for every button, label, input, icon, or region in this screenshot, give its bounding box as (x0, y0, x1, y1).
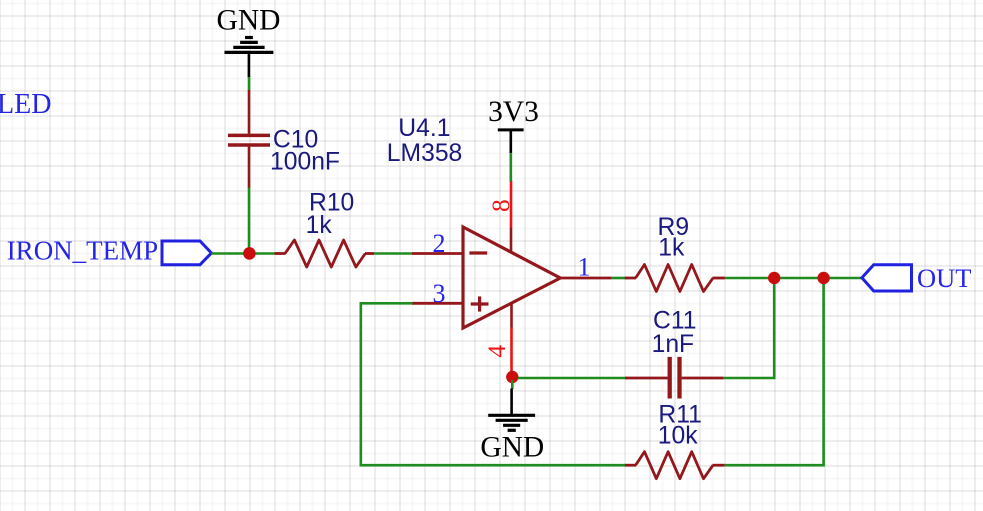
svg-text:U4.1: U4.1 (398, 115, 450, 142)
svg-text:1k: 1k (658, 234, 685, 261)
svg-text:1: 1 (578, 253, 591, 282)
wire (518, 377, 626, 380)
resistor R10 (275, 240, 375, 267)
resistor R9 (625, 265, 725, 292)
power symbol GND (top) (225, 38, 274, 78)
junction (243, 247, 256, 260)
svg-text:1nF: 1nF (652, 331, 695, 358)
wire (511, 380, 514, 389)
wire (724, 284, 775, 378)
wire (248, 188, 251, 254)
op-amp U4.1 pin 2 lead (412, 252, 463, 255)
capacitor C11 (625, 357, 724, 399)
svg-text:2: 2 (433, 229, 446, 258)
resistor R11 (625, 452, 725, 479)
svg-text:GND: GND (217, 5, 281, 37)
svg-text:LM358: LM358 (387, 140, 463, 167)
wire (374, 252, 412, 255)
svg-text:8: 8 (486, 199, 515, 212)
plus sign (471, 296, 489, 311)
svg-text:3V3: 3V3 (488, 96, 539, 128)
capacitor C10 (228, 90, 270, 189)
junction (pin4/C11/GND node) (506, 371, 518, 383)
junction (768, 272, 780, 284)
pin 8 (510, 181, 513, 228)
wire (feedback from pin 3) (361, 303, 626, 465)
svg-text:OUT: OUT (917, 263, 971, 293)
svg-text:4: 4 (482, 345, 511, 358)
wire (725, 277, 862, 280)
port OUT (862, 265, 912, 291)
svg-text:3: 3 (433, 279, 446, 308)
pin 1 lead (560, 277, 612, 280)
wire (612, 277, 627, 280)
wire (211, 252, 275, 255)
svg-text:10k: 10k (658, 422, 698, 449)
wire (248, 77, 251, 91)
op-amp U1 triangle (463, 227, 560, 328)
svg-text:100nF: 100nF (270, 149, 340, 176)
pin 4 (510, 303, 513, 328)
svg-text:1k: 1k (306, 212, 333, 239)
wire (509, 153, 512, 181)
junction (817, 272, 829, 284)
wire (725, 284, 824, 465)
svg-text:IRON_TEMP: IRON_TEMP (7, 236, 159, 266)
svg-text:GND: GND (480, 431, 544, 463)
minus sign (469, 251, 487, 254)
svg-text:LED: LED (0, 89, 51, 120)
ground GND (bottom) (488, 389, 535, 431)
op-amp U4.1 pin 3 lead (412, 302, 463, 305)
